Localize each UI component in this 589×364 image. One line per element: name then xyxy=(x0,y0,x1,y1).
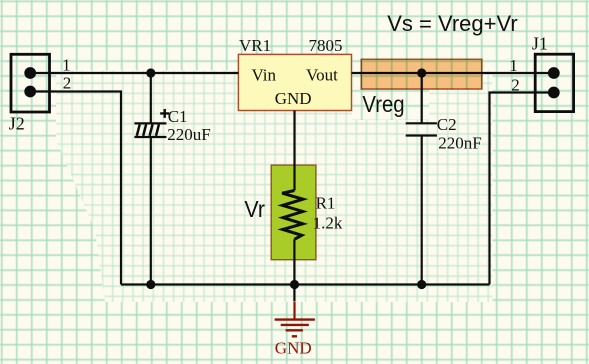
wire C2 branch top xyxy=(421,73,423,123)
svg-text:2: 2 xyxy=(511,75,520,94)
regulator U VR1 body xyxy=(238,54,351,110)
wire C2 branch bottom xyxy=(421,137,423,285)
capacitor C1 plus sign xyxy=(160,109,169,118)
svg-text:J1: J1 xyxy=(532,34,548,54)
wire J2 pin2 down to ground rail xyxy=(30,92,121,285)
capacitor C1 bottom plate xyxy=(134,136,166,138)
capacitor C1 hatch stripes xyxy=(137,125,159,136)
wire R1 bottom through rail to ground xyxy=(293,239,295,301)
svg-text:VR1: VR1 xyxy=(239,36,271,55)
wire ground rail up to J1 pin2 xyxy=(490,93,554,285)
connector J1 pad 2 xyxy=(548,87,560,99)
svg-text:Vs = Vreg+Vr: Vs = Vreg+Vr xyxy=(387,11,518,36)
wire J2 pin1 to VR1 Vin xyxy=(30,72,238,74)
connector J2 pad 2 xyxy=(24,86,36,98)
svg-text:GND: GND xyxy=(275,338,312,357)
capacitor C2 top plate xyxy=(406,122,437,124)
highlight box Vreg (translucent marker) xyxy=(361,59,482,89)
wire C1 branch top xyxy=(150,73,152,123)
svg-text:R1: R1 xyxy=(316,194,336,213)
svg-text:220nF: 220nF xyxy=(438,134,481,153)
wire ground rail xyxy=(121,283,490,285)
svg-text:Vout: Vout xyxy=(306,66,338,85)
svg-text:1.2k: 1.2k xyxy=(313,213,343,232)
svg-text:220uF: 220uF xyxy=(167,125,210,144)
junction node C2 rail xyxy=(417,280,426,289)
junction node R1 rail xyxy=(290,280,299,289)
wire VR1 Vout to J1 pin1 xyxy=(352,72,554,74)
svg-text:J2: J2 xyxy=(9,114,25,134)
connector J2 pad 1 xyxy=(24,67,36,79)
resistor R1 highlight body xyxy=(271,165,316,260)
svg-text:7805: 7805 xyxy=(309,36,343,55)
svg-text:C1: C1 xyxy=(168,107,188,126)
connector J1 pad 1 xyxy=(548,67,560,79)
ground symbol xyxy=(275,302,315,336)
wire VR1 GND pin down to R1 xyxy=(293,111,295,191)
connector J1 box xyxy=(535,54,573,111)
resistor R1 zigzag xyxy=(282,191,303,240)
svg-text:1: 1 xyxy=(509,56,518,75)
svg-text:Vreg: Vreg xyxy=(362,91,404,117)
svg-text:Vr: Vr xyxy=(244,196,265,222)
junction node C2 top xyxy=(417,68,426,77)
capacitor C1 top plate xyxy=(134,122,166,124)
connector J2 box xyxy=(11,54,50,112)
svg-text:GND: GND xyxy=(275,89,312,108)
svg-text:C2: C2 xyxy=(437,115,457,134)
wire C1 branch bottom xyxy=(150,138,152,285)
svg-text:2: 2 xyxy=(63,73,71,92)
svg-text:1: 1 xyxy=(62,55,71,74)
junction node C1 rail xyxy=(146,280,155,289)
junction node C1 top xyxy=(146,68,155,77)
svg-text:Vin: Vin xyxy=(252,66,277,85)
capacitor C2 bottom plate xyxy=(406,134,437,136)
